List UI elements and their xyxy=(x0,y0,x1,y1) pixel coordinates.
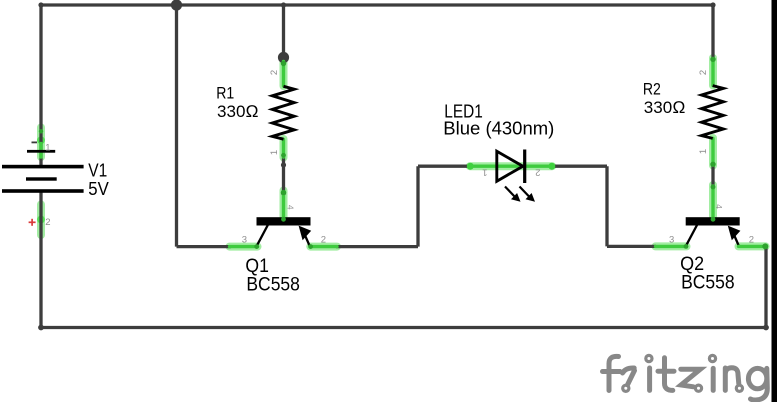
wire to Q1 pin3 xyxy=(177,245,232,248)
junction dot top rail Q1 net xyxy=(171,0,182,11)
svg-text:3: 3 xyxy=(669,235,674,246)
junction dot R1 top xyxy=(278,52,289,63)
wire vertical base net Q1 xyxy=(175,5,178,247)
wire top rail xyxy=(41,3,713,6)
wire cap top rail at R1 xyxy=(281,2,286,7)
svg-text:2: 2 xyxy=(749,235,754,246)
LED1 triangle xyxy=(497,151,523,181)
green dot R2 top xyxy=(710,57,715,62)
fritzing logo xyxy=(603,355,768,400)
svg-text:1: 1 xyxy=(269,150,280,155)
transistor Q1 emitter leg xyxy=(304,233,310,246)
transistor Q2 bar xyxy=(686,217,740,225)
green core R2 pin1 xyxy=(711,139,714,166)
svg-text:4: 4 xyxy=(285,205,295,210)
svg-text:330Ω: 330Ω xyxy=(644,98,686,117)
glow R1 pin1 xyxy=(280,139,288,158)
wire cap R1-Q1 lower xyxy=(281,190,286,195)
svg-text:1: 1 xyxy=(45,142,50,153)
wire LED left lead xyxy=(418,165,471,168)
svg-text:4: 4 xyxy=(714,204,724,209)
svg-text:2: 2 xyxy=(45,217,50,228)
svg-text:2: 2 xyxy=(269,70,280,75)
transistor Q1 bar xyxy=(257,217,311,225)
LED1 cathode bar xyxy=(523,150,526,184)
green core Q2 pin2 xyxy=(739,245,766,248)
svg-text:2: 2 xyxy=(321,235,326,246)
glow R2 pin1 xyxy=(709,138,717,166)
svg-text:330Ω: 330Ω xyxy=(217,102,259,121)
glow R1 pin2 xyxy=(280,61,288,87)
wire cap top-left corner xyxy=(38,2,43,7)
green blob battery pin2 xyxy=(37,216,45,224)
wire R2 to Q2 base xyxy=(711,165,714,187)
wire cap bottom-right corner xyxy=(763,325,769,331)
transistor Q2 emitter arrow xyxy=(728,226,741,241)
battery plus sign xyxy=(29,219,36,226)
svg-text:Blue (430nm): Blue (430nm) xyxy=(443,119,554,139)
green dot Q2 base top xyxy=(711,185,716,190)
resistor R1 zigzag xyxy=(272,86,294,139)
green dot Q1 base bar xyxy=(281,217,286,222)
green dot Q1 pin2 end xyxy=(308,244,313,249)
green core LED net xyxy=(470,164,552,167)
wire Q2 pin2 down xyxy=(764,246,767,327)
LED1 emission arrow 1 xyxy=(505,187,521,202)
battery V1 plate long upper xyxy=(2,165,84,169)
glow Q2 pin2 xyxy=(739,242,766,250)
green dot R2 bottom xyxy=(710,162,715,167)
glow Q1 base xyxy=(280,191,288,221)
transistor Q1 emitter arrow xyxy=(299,226,312,241)
wire top rail to R2 xyxy=(711,5,714,60)
transistor Q1 collector leg xyxy=(257,225,268,246)
glow LED net xyxy=(470,162,552,170)
green core Q2 pin3 xyxy=(656,245,687,248)
glow Q2 pin3 xyxy=(656,242,687,250)
green dot Q1 base top xyxy=(281,190,286,195)
svg-text:2: 2 xyxy=(535,167,540,178)
wire cap R1-Q1 upper xyxy=(281,162,286,167)
wire bottom rail xyxy=(41,326,766,329)
green dot LED pin2 xyxy=(548,163,555,170)
green blob battery pin1 xyxy=(37,136,45,144)
resistor R2 zigzag xyxy=(702,86,724,139)
wire LED right lead xyxy=(552,165,607,168)
glow battery pin1 xyxy=(37,128,45,158)
battery minus sign xyxy=(32,141,38,143)
wire top rail to R1 xyxy=(282,5,285,58)
glow battery pin2 xyxy=(37,205,45,236)
green dot Q1 pin3 end xyxy=(254,244,259,249)
green dot Q2 pin3 end xyxy=(684,244,689,249)
wire battery bottom to bottom rail xyxy=(39,192,42,328)
green dot LED pin1 xyxy=(467,163,474,170)
green core R2 pin2 xyxy=(711,59,714,86)
green core Q1 pin2 xyxy=(310,245,337,248)
svg-text:R1: R1 xyxy=(216,83,234,102)
glow Q1 pin3 xyxy=(230,243,258,251)
green core Q1 pin3 xyxy=(230,245,258,248)
svg-text:BC558: BC558 xyxy=(246,275,300,296)
green dot R1 top xyxy=(281,61,286,66)
svg-text:5V: 5V xyxy=(88,179,109,199)
svg-text:2: 2 xyxy=(698,70,709,75)
wire cap top-right corner xyxy=(710,2,715,7)
wire LED left riser xyxy=(416,166,419,246)
transistor Q2 emitter leg xyxy=(733,233,739,246)
green core R1 pin1 xyxy=(282,140,285,158)
right border bar xyxy=(772,0,777,402)
svg-text:R2: R2 xyxy=(643,79,661,98)
wire LED right riser xyxy=(605,166,608,246)
battery V1 plate short top xyxy=(27,150,55,153)
glow Q1 pin2 xyxy=(310,243,337,251)
svg-text:1: 1 xyxy=(482,167,487,178)
battery V1 plate long lower xyxy=(2,189,84,193)
wire cap bottom-left corner xyxy=(38,325,44,331)
svg-text:BC558: BC558 xyxy=(681,273,735,294)
wire R1 to Q1 base xyxy=(282,157,285,194)
wire Q1 pin2 to LED riser xyxy=(336,245,418,248)
green core R1 pin2 xyxy=(282,62,285,87)
green core Q1 base xyxy=(282,192,285,220)
glow R2 pin2 xyxy=(709,58,717,86)
green core Q2 base xyxy=(711,186,714,220)
battery V1 plate short mid xyxy=(26,177,57,180)
green dot Q2 base bar xyxy=(711,217,716,222)
wire left rail battery top xyxy=(39,5,42,150)
svg-text:3: 3 xyxy=(242,235,247,246)
svg-text:V1: V1 xyxy=(88,160,107,180)
green dot battery pin1 cap xyxy=(39,129,43,133)
svg-text:1: 1 xyxy=(698,149,709,154)
green core battery pin1 stub xyxy=(39,144,42,158)
wire battery short-bar to plate xyxy=(39,152,42,166)
green dot Q2 pin2 end xyxy=(762,243,768,249)
LED1 emission arrow 2 xyxy=(520,187,536,202)
glow Q2 base xyxy=(709,185,717,220)
transistor Q2 collector leg xyxy=(686,225,697,246)
wire to Q2 pin3 xyxy=(607,245,656,248)
green dot R1 bottom xyxy=(281,153,286,158)
